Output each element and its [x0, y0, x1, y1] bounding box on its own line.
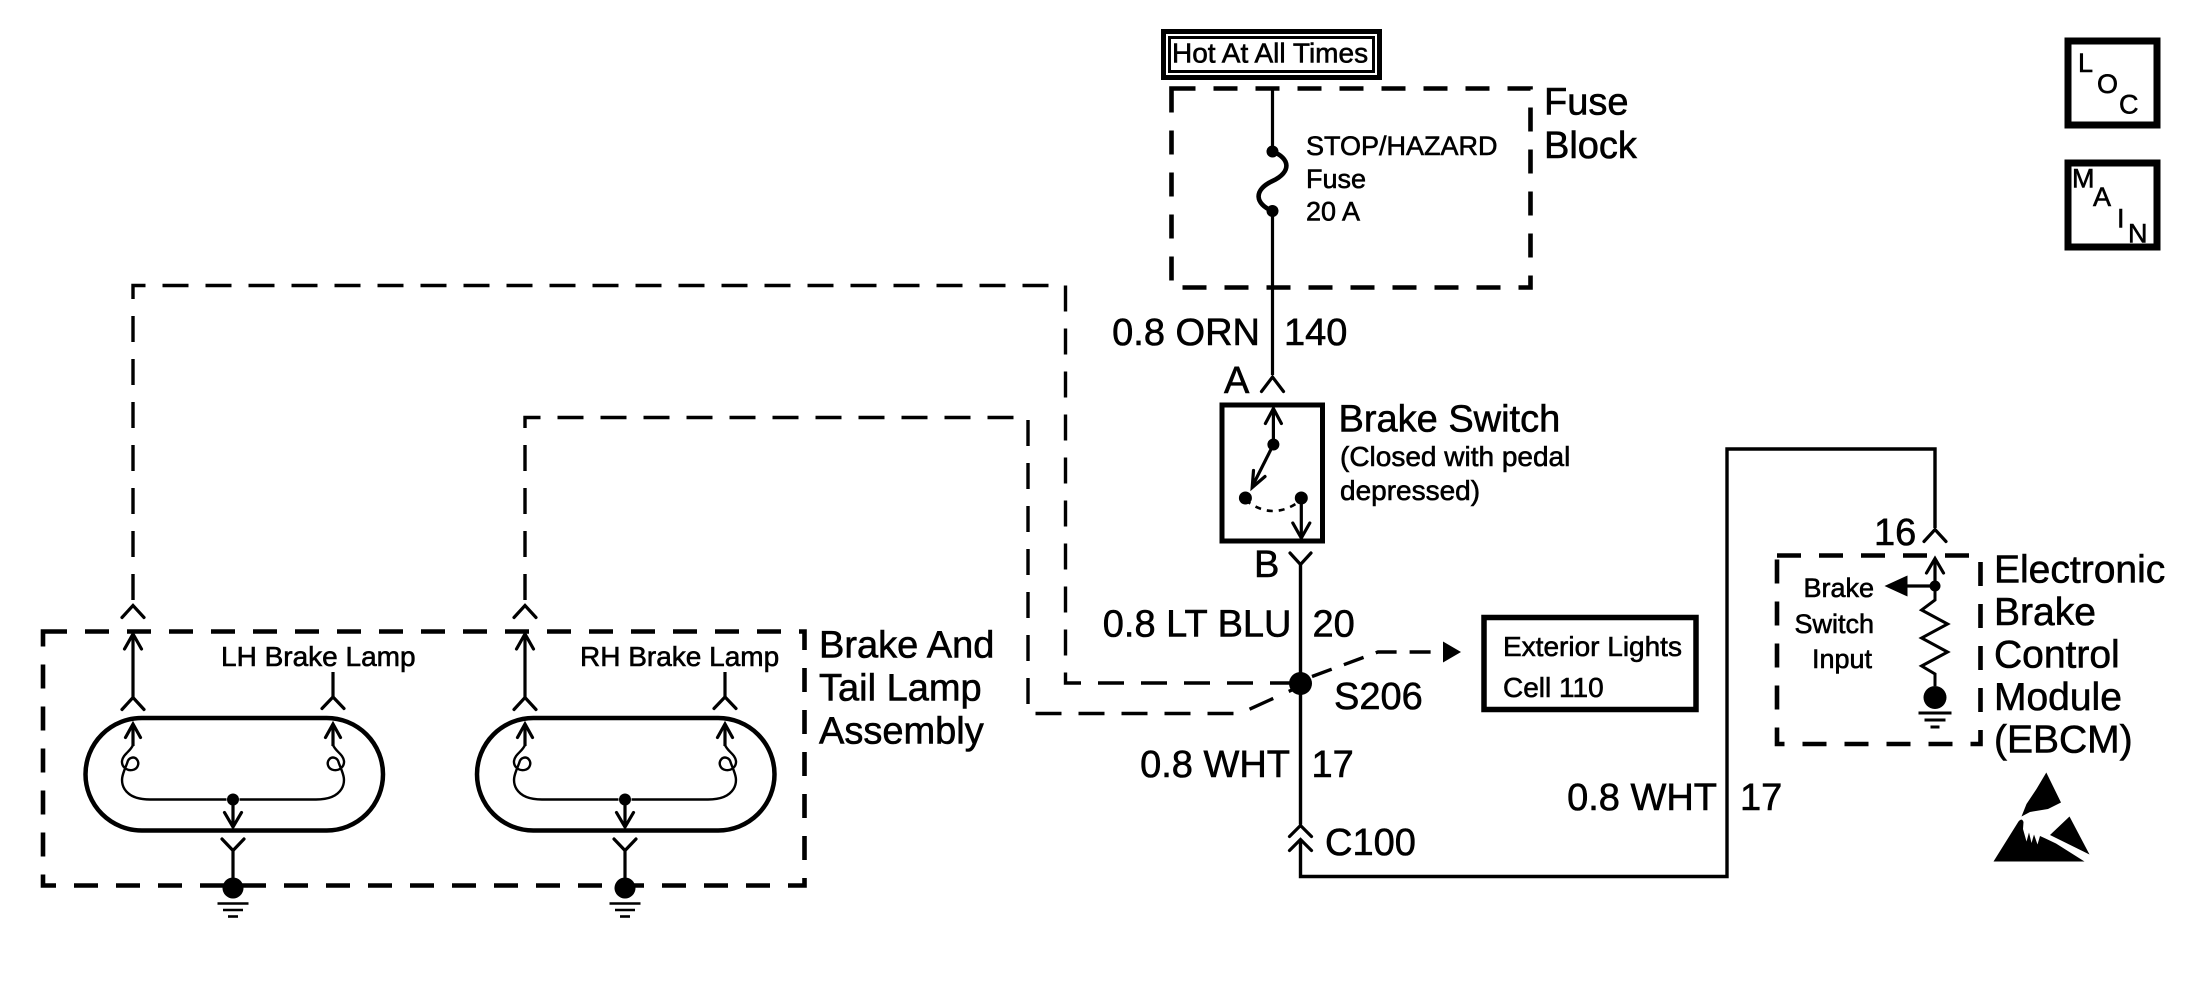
svg-text:Fuse: Fuse [1544, 82, 1628, 124]
LH brake lamp bulb outline [86, 718, 384, 831]
svg-text:A: A [1224, 360, 1250, 402]
pin 16 label [1874, 512, 1916, 554]
svg-text:depressed): depressed) [1340, 475, 1480, 506]
RH lamp right pin stub [723, 672, 726, 697]
RH lamp ground pin chevron [614, 839, 636, 878]
location code box MAIN [2068, 163, 2157, 249]
wire label 0.8 LT BLU 20 [1103, 604, 1355, 646]
label LH Brake Lamp [221, 641, 416, 672]
brake and tail lamp assembly dashed box [43, 632, 805, 886]
svg-text:Module: Module [1994, 676, 2122, 719]
svg-text:Brake And: Brake And [819, 625, 994, 667]
svg-text:140: 140 [1284, 312, 1347, 354]
wire S206 to C100 (0.8 WHT 17) [1299, 684, 1302, 825]
svg-text:Brake Switch: Brake Switch [1339, 399, 1561, 441]
LH lamp right pin arrow [326, 724, 341, 746]
LH lamp common node dot [227, 794, 239, 806]
LH lamp ground arrow [225, 800, 242, 828]
wire from fuse block top to fuse [1271, 88, 1274, 148]
svg-text:(Closed with pedal: (Closed with pedal [1340, 441, 1570, 472]
location code box LOC [2068, 41, 2157, 125]
label Brake Switch Input [1794, 573, 1874, 674]
RH brake lamp bulb outline [477, 718, 775, 831]
svg-text:O: O [2097, 69, 2118, 99]
power label box "Hot At All Times" [1164, 32, 1380, 78]
ESD sensitive device symbol [1994, 773, 2090, 862]
RH lamp left pin chevron [514, 698, 536, 710]
fuse block dashed box [1172, 89, 1531, 288]
pin B connector chevron [1290, 553, 1311, 565]
wire label 0.8 ORN 140 [1112, 312, 1347, 354]
LH lamp left filament [122, 745, 227, 800]
label RH Brake Lamp [580, 641, 779, 672]
fuse F (STOP/HAZARD 20 A) [1259, 146, 1287, 218]
svg-text:A: A [2093, 182, 2111, 212]
svg-text:Brake: Brake [1994, 591, 2096, 634]
wire B to S206 (0.8 LT BLU 20) [1299, 565, 1302, 684]
svg-text:Block: Block [1544, 125, 1638, 167]
RH lamp left filament [514, 745, 619, 800]
svg-text:Tail Lamp: Tail Lamp [819, 668, 982, 710]
svg-text:Fuse: Fuse [1306, 164, 1366, 194]
svg-text:Switch: Switch [1794, 609, 1874, 639]
wire label 0.8 WHT 17 lower [1567, 777, 1782, 819]
brake switch pivot dot [1267, 439, 1279, 451]
pin B label [1254, 544, 1279, 586]
dashed wire RH lamp feed to S206 [525, 418, 1294, 714]
brake switch left contact dot [1239, 492, 1252, 505]
RH lamp feed connector chevron (above box) [514, 606, 536, 618]
LH lamp right pin chevron [322, 697, 344, 709]
LH lamp feed arrow (below box edge) [125, 634, 142, 697]
label Fuse Block [1544, 82, 1638, 168]
label S206 [1334, 676, 1423, 718]
LH lamp left pin chevron [122, 698, 144, 710]
wire label 0.8 WHT 17 upper [1140, 744, 1354, 786]
RH lamp right filament [632, 745, 737, 800]
svg-text:17: 17 [1740, 777, 1782, 819]
dashed reference arrow to Exterior Lights [1312, 642, 1461, 677]
svg-text:STOP/HAZARD: STOP/HAZARD [1306, 131, 1498, 161]
pin 16 connector chevron [1924, 530, 1946, 542]
svg-text:Hot At All Times: Hot At All Times [1172, 38, 1368, 69]
RH lamp right pin chevron [714, 697, 736, 709]
wire C100 to EBCM pin 16 [1301, 449, 1936, 877]
svg-text:M: M [2072, 164, 2095, 194]
wire fuse to brake switch (0.8 ORN 140) [1271, 211, 1274, 375]
label C100 [1325, 822, 1416, 864]
EBCM junction dot [1930, 581, 1941, 592]
RH lamp right pin arrow [718, 724, 733, 746]
LH lamp ground G [218, 878, 249, 917]
svg-text:I: I [2117, 204, 2125, 234]
RH lamp ground G [610, 878, 641, 917]
svg-text:20 A: 20 A [1306, 197, 1360, 227]
resistor R (pull-up) [1922, 586, 1948, 686]
svg-text:(EBCM): (EBCM) [1994, 719, 2133, 762]
svg-text:Cell 110: Cell 110 [1503, 672, 1604, 703]
svg-text:Input: Input [1812, 644, 1873, 674]
svg-text:Exterior Lights: Exterior Lights [1503, 631, 1682, 662]
RH lamp common node dot [619, 794, 631, 806]
LH lamp feed connector chevron (above box) [122, 606, 144, 618]
LH lamp ground pin chevron [222, 839, 244, 878]
LH lamp right pin stub [331, 672, 334, 697]
EBCM dashed box [1777, 556, 1981, 745]
svg-text:B: B [1254, 544, 1279, 586]
svg-text:Brake: Brake [1803, 573, 1874, 603]
pin A label [1224, 360, 1250, 402]
svg-text:0.8 WHT: 0.8 WHT [1140, 744, 1290, 786]
svg-text:S206: S206 [1334, 676, 1423, 718]
pin A connector chevron [1262, 377, 1284, 392]
label Electronic Brake Control Module (EBCM) [1994, 549, 2165, 762]
RH lamp ground arrow [617, 800, 634, 828]
svg-text:N: N [2128, 219, 2148, 249]
fuse value label [1306, 131, 1498, 227]
brake switch dashed travel arc [1245, 500, 1301, 511]
EBCM pin 16 input arrow [1927, 559, 1944, 587]
svg-text:LH Brake Lamp: LH Brake Lamp [221, 641, 416, 672]
connector C100 double chevron [1290, 826, 1312, 851]
svg-text:RH Brake Lamp: RH Brake Lamp [580, 641, 779, 672]
svg-text:Control: Control [1994, 634, 2120, 677]
dashed wire LH lamp feed to S206 [133, 286, 1294, 684]
label Brake And Tail Lamp Assembly [819, 625, 994, 753]
LH lamp left pin arrow [126, 724, 141, 746]
svg-text:L: L [2078, 48, 2093, 78]
splice node S206 [1289, 672, 1312, 695]
RH lamp feed arrow (below box edge) [517, 634, 534, 697]
svg-text:C100: C100 [1325, 822, 1416, 864]
EBCM internal ground [1919, 686, 1952, 727]
svg-text:20: 20 [1313, 604, 1355, 646]
svg-text:Assembly: Assembly [819, 711, 984, 753]
brake switch pin B arrow [1293, 503, 1310, 538]
brake switch input arrow (left) [1885, 576, 1936, 597]
reference box Exterior Lights Cell 110 [1484, 618, 1696, 710]
brake switch pin A arrow [1265, 408, 1281, 445]
svg-text:17: 17 [1312, 744, 1354, 786]
svg-text:16: 16 [1874, 512, 1916, 554]
brake switch blade arrow [1252, 445, 1273, 488]
label Brake Switch [1339, 399, 1571, 507]
svg-text:0.8 ORN: 0.8 ORN [1112, 312, 1260, 354]
svg-text:Electronic: Electronic [1994, 549, 2165, 592]
RH lamp left pin arrow [518, 724, 533, 746]
svg-text:0.8 LT BLU: 0.8 LT BLU [1103, 604, 1292, 646]
brake switch box [1222, 405, 1323, 541]
svg-text:0.8 WHT: 0.8 WHT [1567, 777, 1717, 819]
svg-text:C: C [2119, 90, 2139, 120]
LH lamp right filament [240, 745, 345, 800]
brake switch right contact dot [1295, 492, 1308, 505]
